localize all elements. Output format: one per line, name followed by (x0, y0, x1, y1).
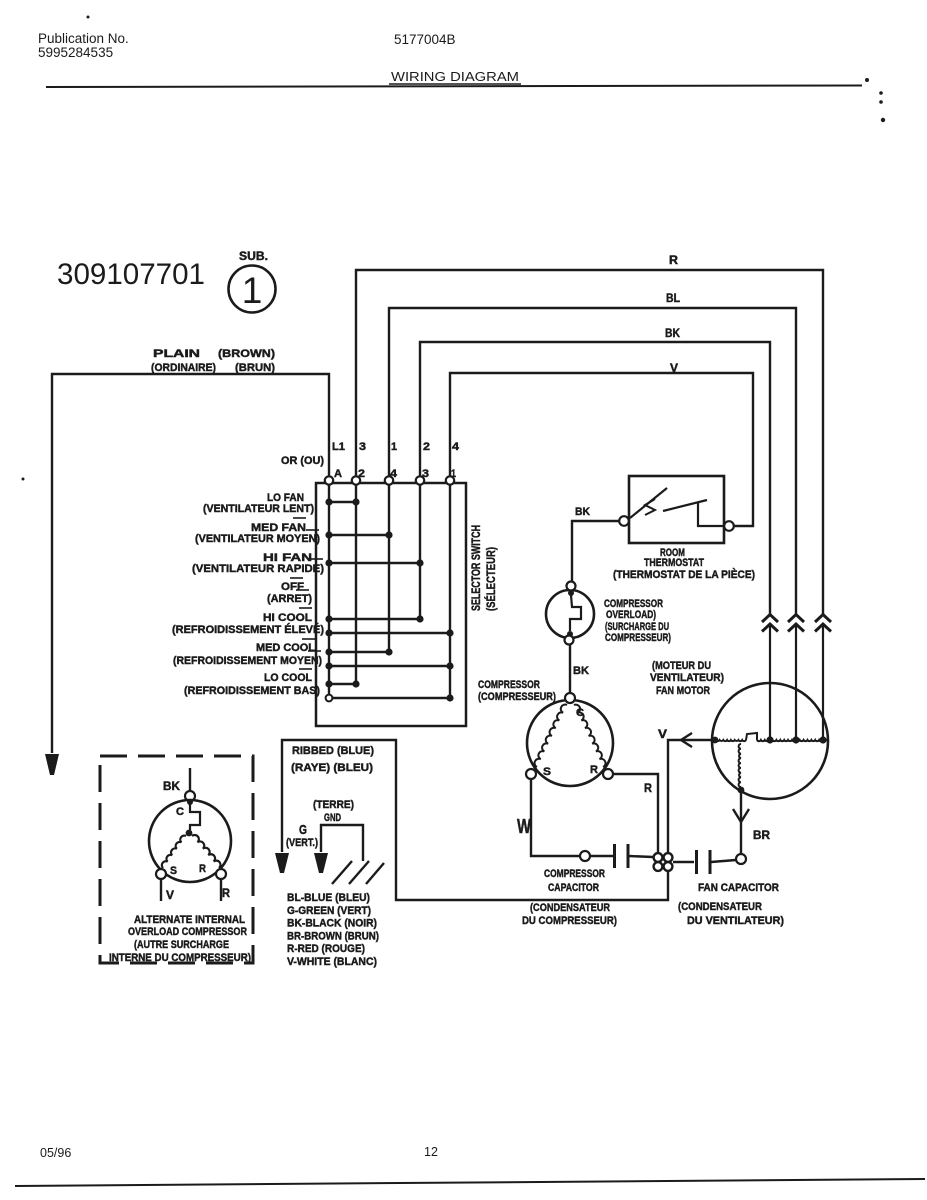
wire W from S to capacitor (531, 779, 580, 856)
svg-text:3: 3 (359, 441, 366, 453)
svg-text:(ARRET): (ARRET) (267, 593, 312, 605)
wire V loop to thermostat (450, 373, 753, 526)
alt R lead wire (220, 879, 222, 901)
junction cluster terminals (654, 853, 663, 862)
svg-text:5995284535: 5995284535 (38, 45, 113, 60)
svg-text:(CONDENSATEUR: (CONDENSATEUR (678, 901, 762, 913)
overbars on switch labels (293, 517, 306, 519)
svg-text:VENTILATEUR): VENTILATEUR) (650, 672, 724, 684)
svg-text:V: V (658, 729, 667, 741)
selector column line 3 (419, 485, 421, 619)
svg-text:BL: BL (666, 293, 680, 305)
svg-text:BK: BK (163, 781, 181, 793)
svg-text:G: G (299, 822, 307, 837)
svg-text:BR-BROWN (BRUN): BR-BROWN (BRUN) (287, 930, 379, 942)
fan motor tap BK (766, 736, 773, 743)
svg-text:Publication No.: Publication No. (38, 31, 129, 46)
footer rule (15, 1179, 925, 1186)
alt R terminal (216, 869, 226, 879)
alt compressor top terminal (185, 791, 195, 801)
wire plain brown: left drop and top run to L1 (52, 374, 329, 753)
fan motor left terminal dot (712, 737, 719, 744)
overload top junction dot (568, 590, 574, 596)
svg-text:309107701: 309107701 (57, 258, 205, 291)
speck marks (22, 16, 886, 481)
wire R compressor to junction (613, 774, 658, 852)
selector column line 1 (449, 485, 451, 698)
svg-text:A: A (334, 468, 342, 480)
svg-text:(REFROIDISSEMENT MOYEN): (REFROIDISSEMENT MOYEN) (173, 655, 322, 667)
alt start winding (162, 836, 186, 868)
alt center junction dot (186, 830, 193, 837)
svg-text:LO COOL: LO COOL (264, 672, 312, 684)
fan motor aux winding dot (738, 787, 745, 794)
svg-text:V-WHITE (BLANC): V-WHITE (BLANC) (287, 956, 377, 968)
fan motor main winding right (757, 740, 823, 741)
alt compressor circle (149, 800, 231, 882)
thermostat switch blade (630, 488, 667, 518)
alt S lead wire (160, 879, 162, 901)
wire BL loop (389, 308, 796, 615)
svg-text:C: C (176, 806, 184, 818)
svg-text:(THERMOSTAT DE LA PIÈCE): (THERMOSTAT DE LA PIÈCE) (613, 568, 755, 581)
svg-text:(VENTILATEUR RAPIDE): (VENTILATEUR RAPIDE) (192, 563, 324, 575)
svg-text:GND: GND (324, 812, 341, 824)
sub revision circle (229, 266, 276, 313)
arrow BR pointing down (733, 809, 749, 822)
wire fan capacitor to BR terminal (711, 860, 736, 862)
wire V motor to junction (668, 740, 712, 852)
selector column line 4 (388, 485, 390, 652)
compressor R terminal (603, 769, 613, 779)
svg-text:R: R (669, 255, 679, 267)
svg-text:(AUTRE SURCHARGE: (AUTRE SURCHARGE (134, 939, 229, 951)
selector terminal 4 (416, 476, 424, 484)
svg-text:BK: BK (665, 328, 681, 340)
header rule (46, 86, 862, 88)
fan capacitor plates (695, 850, 698, 874)
svg-text:(TERRE): (TERRE) (313, 799, 354, 811)
svg-text:(RAYE) (BLEU): (RAYE) (BLEU) (291, 762, 373, 774)
arrow line cord plain end (45, 754, 59, 775)
arrow ground wire end (314, 853, 328, 873)
selector row contact line 2 (329, 534, 389, 536)
svg-text:V: V (670, 363, 678, 375)
svg-text:WIRING DIAGRAM: WIRING DIAGRAM (391, 70, 519, 84)
selector row contact line 9 (329, 697, 450, 699)
selector row contact line 8 (329, 683, 356, 685)
thermostat bimetal curl (645, 499, 655, 515)
fan motor tap BL (792, 736, 799, 743)
arrow ribbed wire end (275, 853, 289, 873)
selector column line 2 (355, 485, 357, 684)
selector terminal 5 (446, 476, 454, 484)
svg-text:MED COOL: MED COOL (256, 642, 315, 654)
svg-text:THERMOSTAT: THERMOSTAT (644, 557, 704, 569)
svg-text:DU COMPRESSEUR): DU COMPRESSEUR) (522, 915, 617, 927)
svg-text:OVERLOAD COMPRESSOR: OVERLOAD COMPRESSOR (128, 926, 247, 938)
svg-text:W: W (517, 816, 531, 838)
thermostat fixed contact (698, 503, 723, 526)
svg-text:DU VENTILATEUR): DU VENTILATEUR) (687, 915, 784, 927)
svg-text:12: 12 (424, 1145, 438, 1159)
svg-text:R: R (644, 783, 653, 795)
svg-text:05/96: 05/96 (40, 1146, 71, 1160)
selector row contact line 3 (329, 562, 420, 564)
compressor top terminal C (565, 693, 575, 703)
svg-text:INTERNE DU COMPRESSEUR): INTERNE DU COMPRESSEUR) (109, 952, 251, 964)
wire BK loop (420, 342, 770, 615)
svg-text:V: V (166, 890, 174, 902)
selector terminal 1 (325, 476, 333, 484)
quick-connect chevrons on BK wire (762, 615, 778, 623)
svg-text:PLAIN: PLAIN (153, 348, 200, 360)
svg-text:RIBBED (BLUE): RIBBED (BLUE) (292, 745, 374, 757)
svg-text:R-RED (ROUGE): R-RED (ROUGE) (287, 943, 365, 955)
compressor capacitor left terminal (580, 851, 590, 861)
svg-text:S: S (170, 865, 177, 877)
selector column line A (328, 485, 330, 698)
svg-text:(REFROIDISSEMENT ÉLEVÉ): (REFROIDISSEMENT ÉLEVÉ) (172, 623, 324, 636)
svg-text:(BRUN): (BRUN) (235, 362, 275, 374)
selector row contact line 4 (329, 618, 420, 620)
quick-connect chevrons on BL wire (788, 615, 804, 623)
svg-text:R: R (199, 863, 206, 875)
svg-text:OVERLOAD): OVERLOAD) (606, 609, 656, 621)
compressor circle (527, 700, 613, 786)
svg-text:S: S (543, 766, 551, 778)
svg-text:(VENTILATEUR MOYEN): (VENTILATEUR MOYEN) (195, 533, 320, 545)
svg-text:FAN CAPACITOR: FAN CAPACITOR (698, 882, 779, 894)
wire green ground run (321, 825, 363, 861)
alt top junction dot (187, 799, 193, 805)
svg-text:R: R (590, 764, 598, 776)
fan motor circle (712, 683, 828, 799)
svg-text:COMPRESSEUR): COMPRESSEUR) (605, 632, 671, 644)
compressor S terminal (526, 769, 536, 779)
fan motor tap R (819, 736, 826, 743)
svg-text:1: 1 (242, 270, 263, 311)
compressor capacitor plates (613, 844, 616, 868)
thermostat left terminal (619, 516, 629, 526)
svg-text:ALTERNATE INTERNAL: ALTERNATE INTERNAL (134, 914, 245, 926)
fan motor protector notch (746, 733, 757, 740)
overload bottom junction dot (567, 631, 573, 637)
svg-text:BK-BLACK (NOIR): BK-BLACK (NOIR) (287, 918, 377, 930)
svg-text:(MOTEUR DU: (MOTEUR DU (652, 660, 711, 672)
compressor start winding (535, 705, 567, 767)
overload bottom terminal (565, 636, 574, 645)
svg-text:BR: BR (753, 830, 771, 842)
svg-text:(REFROIDISSEMENT BAS): (REFROIDISSEMENT BAS) (184, 685, 320, 697)
svg-text:SUB.: SUB. (239, 251, 268, 263)
svg-text:(CONDENSATEUR: (CONDENSATEUR (530, 902, 610, 914)
svg-text:OFF: OFF (281, 581, 304, 593)
selector row contact line 5 (329, 632, 450, 634)
svg-text:(VENTILATEUR LENT): (VENTILATEUR LENT) (203, 503, 314, 515)
svg-text:1: 1 (391, 441, 397, 453)
wire capacitor to junction (629, 856, 653, 857)
alt run winding (192, 835, 220, 868)
svg-text:BK: BK (575, 506, 590, 518)
fan motor main winding left (712, 740, 746, 741)
wire BR motor to capacitor (740, 790, 742, 854)
room thermostat box (629, 476, 724, 543)
svg-text:2: 2 (423, 441, 430, 453)
svg-text:4: 4 (452, 441, 460, 453)
fan capacitor right terminal (736, 854, 746, 864)
fan motor aux winding (739, 744, 741, 787)
fan motor line end (823, 739, 827, 741)
alt overload disc element (190, 804, 200, 830)
underline of WIRING DIAGRAM (389, 83, 521, 85)
overload disc element (570, 595, 581, 631)
svg-text:SELECTOR SWITCH: SELECTOR SWITCH (469, 525, 483, 611)
wire to capacitor plate (590, 855, 613, 857)
alternate compressor dashed box (100, 756, 253, 963)
svg-text:(BROWN): (BROWN) (218, 348, 275, 360)
svg-text:R: R (222, 888, 231, 900)
svg-text:BK: BK (573, 665, 589, 677)
svg-text:FAN MOTOR: FAN MOTOR (656, 685, 710, 697)
selector terminal 2 (352, 476, 360, 484)
thermostat contact arm (663, 500, 707, 511)
svg-text:L1: L1 (332, 441, 345, 453)
compressor run winding (574, 705, 605, 767)
svg-text:(SÉLECTEUR): (SÉLECTEUR) (483, 547, 498, 611)
svg-text:5177004B: 5177004B (394, 32, 456, 47)
selector row contact line 1 (329, 501, 356, 503)
wire overload to compressor (569, 645, 571, 693)
wire ribbed blue neutral run (282, 740, 668, 900)
svg-text:HI COOL: HI COOL (263, 612, 312, 624)
overload top terminal (567, 582, 576, 591)
thermostat right terminal (724, 521, 734, 531)
selector terminal 3 (385, 476, 393, 484)
arrow V pointing left (681, 733, 692, 747)
quick-connect chevrons on R wire (815, 615, 831, 623)
wire alt compressor lead (189, 768, 191, 791)
selector switch box (316, 483, 466, 726)
wire junction to fan capacitor (673, 861, 694, 863)
svg-text:BL-BLUE (BLEU): BL-BLUE (BLEU) (287, 892, 370, 904)
svg-text:(ORDINAIRE): (ORDINAIRE) (151, 362, 216, 374)
svg-text:COMPRESSOR: COMPRESSOR (544, 868, 605, 880)
svg-text:G-GREEN (VERT): G-GREEN (VERT) (287, 905, 371, 917)
selector row contact line 7 (329, 665, 450, 667)
svg-text:(VERT.): (VERT.) (286, 837, 318, 849)
selector row contact line 6 (329, 651, 389, 653)
alt S terminal (156, 869, 166, 879)
svg-text:OR (OU): OR (OU) (281, 455, 324, 467)
svg-text:(COMPRESSEUR): (COMPRESSEUR) (478, 691, 556, 703)
svg-text:CAPACITOR: CAPACITOR (548, 882, 599, 894)
ground symbol hatches (332, 861, 352, 884)
svg-text:COMPRESSOR: COMPRESSOR (478, 679, 540, 691)
wire BK thermostat to overload (572, 521, 619, 581)
wire R loop (356, 270, 823, 615)
compressor overload circle (546, 590, 594, 638)
